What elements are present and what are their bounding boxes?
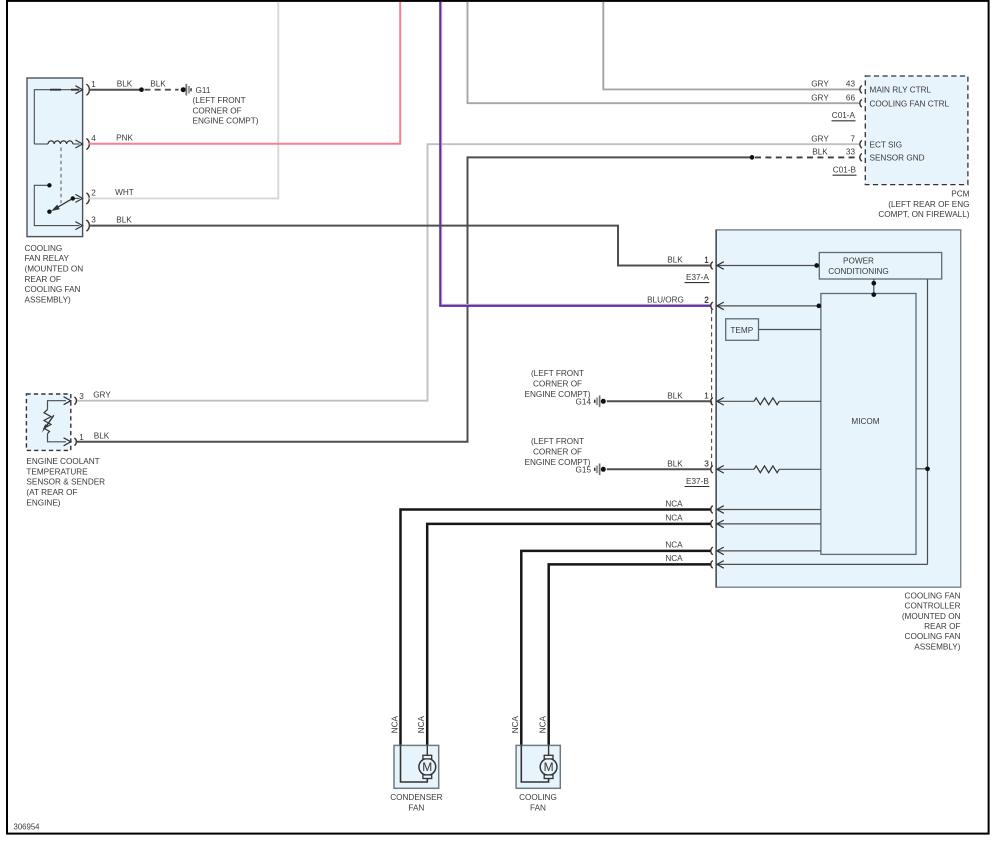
svg-text:G11: G11 [196, 86, 211, 95]
svg-text:NCA: NCA [665, 499, 683, 508]
label G11 and location [193, 86, 259, 126]
svg-text:33: 33 [846, 148, 856, 157]
svg-text:G14: G14 [576, 398, 592, 407]
svg-text:CONTROLLER: CONTROLLER [905, 602, 961, 611]
svg-text:SENSOR & SENDER: SENSOR & SENDER [26, 478, 105, 487]
wire BLK G15 to controller [607, 468, 711, 470]
svg-text:BLK: BLK [117, 80, 133, 89]
svg-text:COOLING FAN: COOLING FAN [25, 285, 81, 294]
ground G14 location text [525, 369, 592, 406]
controller caption [902, 591, 961, 651]
cooling fan controller box U1 [716, 230, 961, 587]
svg-text:(MOUNTED ON: (MOUNTED ON [902, 612, 961, 621]
wire BLK relay pin3 to controller pin1 [89, 226, 710, 266]
svg-text:3: 3 [91, 216, 96, 225]
svg-text:PNK: PNK [116, 134, 133, 143]
svg-text:(AT REAR OF: (AT REAR OF [26, 488, 77, 497]
relay switch armature and contacts [34, 183, 79, 226]
POWER CONDITIONING block [819, 253, 941, 280]
svg-text:BLK: BLK [150, 80, 166, 89]
condenser fan motor M1 [419, 755, 436, 778]
svg-text:POWER: POWER [843, 257, 874, 266]
svg-text:BLK: BLK [667, 391, 683, 400]
svg-text:ASSEMBLY): ASSEMBLY) [25, 295, 72, 304]
sensor pin 3 connector [64, 392, 85, 405]
svg-text:(LEFT FRONT: (LEFT FRONT [531, 437, 584, 446]
wire NCA #4 controller to fan [549, 564, 711, 745]
svg-text:TEMP: TEMP [730, 326, 753, 335]
svg-text:ENGINE): ENGINE) [26, 498, 60, 507]
ground G14 symbol [595, 396, 606, 408]
svg-text:SENSOR GND: SENSOR GND [870, 154, 925, 163]
svg-text:BLK: BLK [667, 256, 683, 265]
svg-text:COOLING: COOLING [25, 244, 63, 253]
wire NCA #1 controller to fan [401, 510, 711, 746]
controller pin NCA connector at y=509.5 [711, 506, 724, 514]
relay coil L1 [34, 141, 79, 144]
svg-text:(LEFT REAR OF ENG: (LEFT REAR OF ENG [888, 200, 969, 209]
connector label C01-A [832, 111, 856, 121]
svg-text:7: 7 [850, 134, 855, 143]
PCM pin 7 connector [811, 134, 862, 148]
relay mechanical link (dashed) [60, 148, 62, 204]
svg-text:M: M [422, 760, 432, 774]
wire pin1 to POWER CONDITIONING [717, 263, 820, 268]
ground G11 symbol [181, 84, 191, 96]
ground G15 symbol [595, 464, 606, 476]
svg-text:COMPT, ON FIREWALL): COMPT, ON FIREWALL) [878, 210, 969, 219]
relay K1 cooling fan relay box [27, 78, 83, 237]
svg-text:BLK: BLK [116, 215, 132, 224]
controller pin 1 connector at y=265.5 [704, 256, 724, 270]
svg-text:G15: G15 [576, 466, 592, 475]
svg-text:4: 4 [91, 134, 96, 143]
svg-text:REAR OF: REAR OF [924, 622, 960, 631]
wire BLK splice to ground G11 (dashed) [145, 89, 179, 91]
svg-text:MICOM: MICOM [851, 417, 879, 426]
wire BLK splice to PCM pin33 (dashed) [755, 156, 860, 158]
internal vertical wire right of MICOM [916, 279, 930, 564]
controller pin 3 connector at y=469.3 [704, 460, 724, 474]
connector label C01-B [833, 165, 857, 175]
svg-text:TEMPERATURE: TEMPERATURE [26, 467, 88, 476]
svg-text:M: M [544, 760, 554, 774]
controller pin 1 connector at y=401.3 [704, 392, 724, 406]
sensor pin 1 connector [64, 433, 85, 446]
internal NCA wires to MICOM [717, 510, 928, 565]
svg-text:NCA: NCA [511, 715, 520, 733]
controller pin NCA connector at y=523.9 [711, 520, 724, 528]
splice S2 [750, 155, 755, 160]
svg-text:COOLING FAN CTRL: COOLING FAN CTRL [870, 100, 950, 109]
svg-text:WHT: WHT [115, 188, 134, 197]
svg-text:ENGINE COOLANT: ENGINE COOLANT [26, 457, 99, 466]
wire BLK G14 to controller [607, 400, 711, 402]
ground G15 location text [525, 437, 592, 474]
relay coil feed wire (pin 1 internal) [34, 90, 79, 144]
svg-text:CORNER OF: CORNER OF [533, 448, 582, 457]
svg-text:E37-A: E37-A [686, 273, 709, 282]
svg-text:NCA: NCA [665, 514, 683, 523]
svg-text:MAIN RLY CTRL: MAIN RLY CTRL [870, 86, 932, 95]
relay pin 4 connector [75, 134, 96, 149]
svg-text:ENGINE COMPT): ENGINE COMPT) [193, 117, 259, 126]
svg-text:NCA: NCA [539, 715, 548, 733]
svg-text:306954: 306954 [14, 822, 41, 831]
svg-text:C01-B: C01-B [833, 165, 857, 174]
svg-text:GRY: GRY [811, 134, 829, 143]
svg-text:2: 2 [91, 189, 96, 198]
svg-text:BLU/ORG: BLU/ORG [647, 296, 684, 305]
svg-text:43: 43 [846, 80, 856, 89]
PCM caption [878, 190, 969, 220]
label E37-A [685, 273, 710, 283]
svg-text:CORNER OF: CORNER OF [193, 106, 242, 115]
svg-text:E37-B: E37-B [686, 477, 709, 486]
PCM pin 43 connector [811, 80, 862, 94]
svg-text:1: 1 [704, 391, 709, 400]
svg-text:3: 3 [79, 392, 84, 401]
cooling fan box [516, 745, 560, 788]
wire NCA #2 controller to fan [427, 524, 710, 746]
wire TEMP to MICOM [759, 329, 821, 331]
svg-text:BLK: BLK [94, 432, 110, 441]
label BLK 1 (controller pin1 wire) [667, 256, 709, 265]
svg-text:1: 1 [704, 256, 709, 265]
thermistor RT1 [42, 401, 66, 442]
svg-text:66: 66 [846, 93, 856, 102]
MICOM block [821, 294, 916, 555]
svg-text:COOLING: COOLING [519, 793, 557, 802]
svg-text:GRY: GRY [93, 391, 111, 400]
svg-text:1: 1 [91, 80, 96, 89]
svg-text:COOLING FAN: COOLING FAN [905, 591, 961, 600]
svg-text:COOLING FAN: COOLING FAN [905, 632, 961, 641]
splice S1 [139, 87, 144, 92]
sensor caption [26, 457, 105, 507]
controller pin NCA connector at y=550.9 [711, 547, 724, 555]
wire BLK sensor pin1 to splice S2 [76, 157, 752, 441]
svg-text:(LEFT FRONT: (LEFT FRONT [531, 369, 584, 378]
svg-text:ECT SIG: ECT SIG [870, 141, 903, 150]
wire GRY sensor pin3 to PCM pin7 (ECT SIG) [76, 144, 860, 401]
svg-text:1: 1 [79, 433, 84, 442]
resistor R2 (pin3 BLK row) [717, 466, 821, 473]
relay pin 1 connector [75, 80, 96, 95]
svg-text:NCA: NCA [665, 541, 683, 550]
wire POWER CONDITIONING to MICOM [871, 279, 876, 297]
controller pin 2 connector at y=305.9 [704, 296, 724, 310]
condenser fan caption [390, 793, 442, 812]
PCM pin 33 connector [812, 148, 862, 162]
svg-text:CONDITIONING: CONDITIONING [828, 267, 889, 276]
svg-text:GRY: GRY [811, 93, 829, 102]
relay pin 3 connector [75, 216, 96, 232]
svg-text:BLK: BLK [667, 459, 683, 468]
svg-text:NCA: NCA [390, 715, 399, 733]
relay pin 2 connector [75, 189, 96, 205]
svg-text:CORNER OF: CORNER OF [533, 380, 582, 389]
label BLK 3 (G15 wire) [667, 459, 709, 468]
wire GRY PCM pin43 (MAIN RLY CTRL) from top [603, 2, 860, 90]
cooling fan caption [519, 793, 557, 812]
svg-text:GRY: GRY [811, 80, 829, 89]
svg-text:ASSEMBLY): ASSEMBLY) [914, 642, 961, 651]
svg-text:FAN: FAN [530, 804, 546, 813]
controller pin NCA connector at y=564.4 [711, 561, 724, 569]
svg-text:REAR OF: REAR OF [25, 275, 61, 284]
wire NCA #3 controller to fan [521, 551, 710, 746]
svg-text:NCA: NCA [665, 554, 683, 563]
connector E37 face (dashed) [711, 310, 713, 467]
svg-text:(MOUNTED ON: (MOUNTED ON [25, 265, 84, 274]
TEMP block [726, 319, 759, 341]
wire BLU/ORG from top to controller pin2 [440, 2, 710, 306]
cooling fan internal wiring [521, 745, 548, 782]
wire WHT relay pin2 to top [89, 2, 278, 199]
svg-text:PCM: PCM [951, 190, 969, 199]
wire PNK relay pin4 to top [89, 2, 400, 144]
condenser fan box [394, 745, 439, 788]
engine coolant temperature sensor box [26, 394, 70, 450]
label BLK 1 (G14 wire) [667, 391, 709, 400]
relay caption [25, 244, 84, 305]
svg-text:2: 2 [704, 296, 709, 305]
resistor R1 (pin1 BLK row) [717, 398, 821, 405]
wire pin2 to MICOM [717, 304, 821, 309]
svg-text:FAN: FAN [408, 804, 424, 813]
svg-text:C01-A: C01-A [832, 111, 856, 120]
svg-text:NCA: NCA [417, 715, 426, 733]
svg-text:(LEFT FRONT: (LEFT FRONT [193, 96, 246, 105]
wire BLK relay pin1 to splice [89, 89, 141, 91]
svg-text:CONDENSER: CONDENSER [390, 793, 442, 802]
svg-text:FAN RELAY: FAN RELAY [25, 254, 70, 263]
label E37-B [685, 477, 710, 487]
svg-text:3: 3 [704, 459, 709, 468]
PCM pin 66 connector [811, 93, 862, 107]
wire GRY PCM pin66 (COOLING FAN CTRL) from top [468, 2, 860, 103]
PCM module box [865, 76, 968, 185]
condenser fan internal wiring [401, 745, 428, 782]
svg-text:BLK: BLK [812, 148, 828, 157]
cooling fan motor M2 [540, 755, 557, 778]
